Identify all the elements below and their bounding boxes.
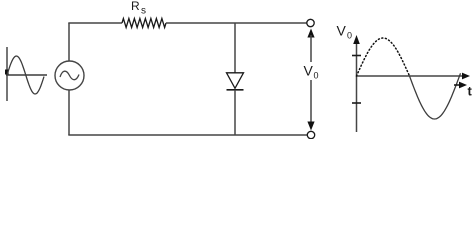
svg-text:s: s <box>141 6 146 17</box>
diode D triangle <box>227 73 244 89</box>
svg-text:t: t <box>468 84 473 99</box>
resistor Rs zigzag <box>122 19 166 28</box>
input waveform vertical axis <box>6 47 8 101</box>
terminal bottom circle <box>307 131 314 138</box>
wire bottom-left vertical <box>68 90 70 135</box>
graph axis tick positive <box>352 55 361 57</box>
graph t axis arrowhead <box>462 73 470 80</box>
output curve arrowhead <box>459 82 467 89</box>
AC source V1 circle <box>55 61 84 90</box>
output dotted positive half sine <box>357 38 410 76</box>
wire top left segment <box>68 22 122 24</box>
svg-text:0: 0 <box>314 71 319 81</box>
wire top-left vertical <box>68 23 70 61</box>
wire bottom <box>68 134 307 136</box>
graph axis tick negative <box>352 102 361 104</box>
V0 arrow upper shaft <box>310 35 312 62</box>
graph t axis <box>356 75 463 77</box>
wire top right segment <box>166 22 307 24</box>
graph V axis <box>356 42 358 132</box>
V0 arrow bottom head <box>307 122 314 131</box>
V0 arrow lower shaft <box>310 80 312 124</box>
output curve arrow tail <box>454 84 460 86</box>
wire diode top <box>234 23 236 73</box>
svg-text:R: R <box>131 0 140 13</box>
AC source tilde <box>60 71 79 80</box>
diode D cathode bar <box>227 89 244 91</box>
graph V axis arrowhead <box>353 35 360 44</box>
wire diode bottom <box>234 90 236 135</box>
input sine wave <box>7 56 44 94</box>
svg-text:0: 0 <box>347 31 352 41</box>
terminal top circle <box>307 19 314 26</box>
input waveform origin marker <box>5 70 9 75</box>
svg-text:V: V <box>304 63 314 79</box>
svg-text:V: V <box>337 23 347 39</box>
input waveform horizontal axis <box>6 74 47 76</box>
output solid negative half sine <box>410 73 461 119</box>
V0 arrow top head <box>307 29 314 38</box>
